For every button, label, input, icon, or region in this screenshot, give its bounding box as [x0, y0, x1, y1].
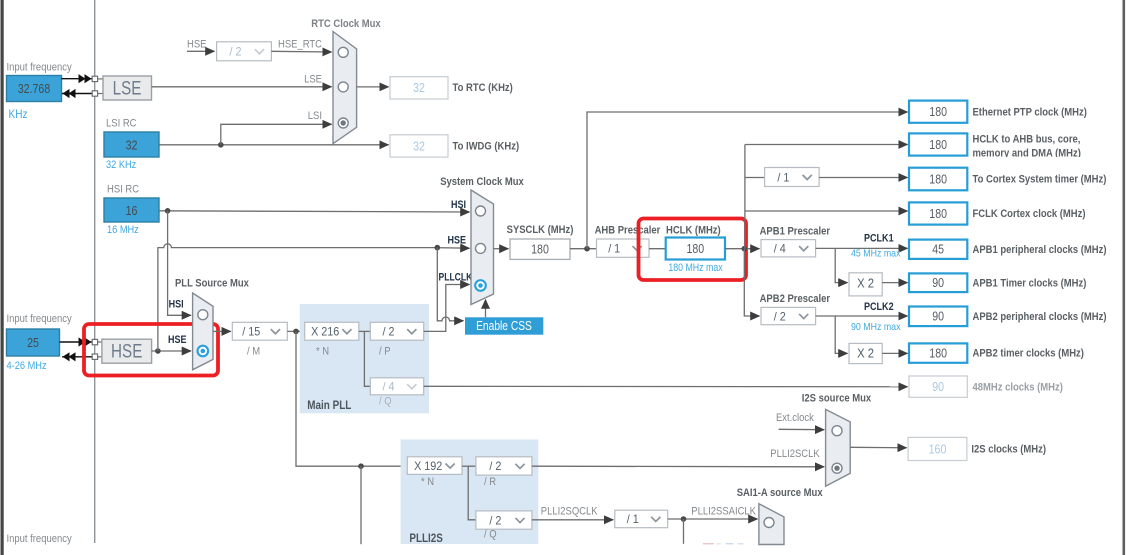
svg-text:APB2 timer clocks (MHz): APB2 timer clocks (MHz) [973, 348, 1085, 360]
divider /P [370, 322, 423, 340]
svg-text:Enable CSS: Enable CSS [476, 319, 532, 333]
clipped row below (tops of characters) [703, 543, 714, 544]
mux RTC Clock Mux [333, 32, 357, 144]
wire APB1 out [816, 247, 908, 249]
svg-text:KHz: KHz [9, 107, 28, 121]
radio sys PLLCLK selected [475, 280, 486, 291]
svg-text:FCLK Cortex clock (MHz): FCLK Cortex clock (MHz) [973, 208, 1086, 220]
wire HCLK to APB1 [725, 248, 760, 250]
value box HCLK 180 [666, 238, 725, 260]
divider /R [476, 457, 532, 475]
svg-text:HSE_RTC: HSE_RTC [278, 39, 322, 51]
svg-text:HSI: HSI [169, 299, 184, 311]
oscillator HSE [102, 339, 152, 363]
wire HSI to system mux [159, 211, 470, 212]
oscillator box LSI 32 [104, 132, 159, 157]
svg-text:LSI RC: LSI RC [106, 118, 137, 130]
label HCLK to AHB line2 (clipped) [973, 148, 1082, 160]
svg-text:To RTC (KHz): To RTC (KHz) [453, 82, 514, 94]
svg-text:/ 1: / 1 [608, 242, 620, 256]
wire X2 apb1 out [882, 282, 907, 284]
svg-text:* N: * N [421, 476, 434, 488]
multiplier X192 [407, 457, 462, 475]
wire hclk riser up [744, 145, 746, 249]
svg-text:32: 32 [413, 81, 425, 95]
svg-text:PLLCLK: PLLCLK [439, 272, 473, 284]
wire /M to X216 [287, 330, 304, 332]
radio PLL HSI [198, 310, 208, 320]
divider APB2 /2 [761, 307, 816, 324]
wire to cortex divider [745, 177, 765, 179]
svg-text:* N: * N [316, 346, 329, 358]
svg-text:/ 4: / 4 [774, 242, 786, 256]
svg-text:Main PLL: Main PLL [307, 400, 351, 412]
svg-text:Input frequency: Input frequency [7, 533, 73, 545]
svg-text:/ 4: / 4 [383, 380, 395, 394]
wire X216 to /P [359, 330, 371, 332]
svg-text:180: 180 [929, 207, 947, 221]
svg-text:32 KHz: 32 KHz [106, 159, 136, 171]
wire mux to RTC box [357, 86, 389, 88]
svg-text:/ 2: / 2 [383, 325, 395, 339]
svg-text:APB1 Timer clocks (MHz): APB1 Timer clocks (MHz) [973, 277, 1087, 289]
wire PLLI2SQCLK [532, 519, 613, 521]
svg-text:HSE: HSE [187, 39, 207, 51]
svg-text:PCLK1: PCLK1 [864, 233, 894, 245]
svg-text:180: 180 [687, 242, 705, 256]
svg-text:memory and DMA (MHz): memory and DMA (MHz) [973, 148, 1082, 160]
radio LSE [338, 82, 348, 92]
junction ethernet riser [584, 246, 590, 252]
svg-text:PLL Source Mux: PLL Source Mux [175, 278, 250, 290]
wire X2 apb2 out [882, 352, 907, 354]
value box Cortex timer 180 [909, 168, 967, 191]
value box To RTC 32 [390, 77, 448, 99]
svg-text:90 MHz max: 90 MHz max [851, 321, 901, 333]
divider /Q [370, 378, 423, 395]
wire branch to /Q [364, 331, 370, 386]
wire HSE_RTC to mux [271, 50, 331, 53]
value box APB1 periph 45 [909, 240, 967, 259]
svg-text:RTC Clock Mux: RTC Clock Mux [311, 18, 381, 30]
svg-text:HSE: HSE [448, 235, 467, 247]
red highlight HSE [84, 324, 218, 376]
pin square HSE bottom [92, 354, 97, 359]
svg-text:32: 32 [413, 139, 425, 153]
block PLLI2S [401, 439, 539, 544]
svg-text:HSI: HSI [451, 199, 466, 211]
red highlight HCLK [639, 219, 747, 281]
wire LSE to mux [152, 86, 332, 88]
svg-text:Input frequency: Input frequency [7, 313, 73, 325]
wire X192 to /R [462, 465, 476, 467]
junction SAI [681, 516, 687, 522]
radio SAI [764, 518, 774, 528]
svg-text:45 MHz max: 45 MHz max [851, 248, 901, 260]
svg-text:/ 2: / 2 [774, 309, 786, 323]
wire down to PLLSAI [360, 466, 362, 544]
svg-text:To IWDG (KHz): To IWDG (KHz) [453, 141, 520, 153]
divider cortex /1 [765, 168, 820, 187]
svg-text:Ext.clock: Ext.clock [776, 412, 814, 424]
svg-text:180: 180 [929, 172, 947, 186]
radio sys HSI [476, 206, 486, 216]
svg-text:PLLI2SSAICLK: PLLI2SSAICLK [691, 506, 756, 518]
wire APB2 out [816, 315, 908, 317]
svg-text:/ 2: / 2 [230, 45, 242, 59]
junction LSI [218, 142, 224, 148]
junction HSI [165, 208, 171, 214]
wire ethernet ptp [587, 112, 908, 249]
svg-text:HSE: HSE [111, 342, 142, 363]
wire HSE riser to system mux (with hop) [158, 244, 433, 351]
svg-text:32.768: 32.768 [18, 82, 51, 96]
wire cortex to box [819, 177, 908, 179]
mux System Clock Mux [471, 190, 494, 305]
svg-text:25: 25 [27, 336, 39, 350]
wire sys mux out [494, 248, 509, 250]
svg-text:/ P: / P [379, 346, 391, 358]
wire LSE return [62, 93, 92, 95]
multiplier *N X216 [305, 322, 359, 340]
radio PLLI2SCLK selected [832, 463, 842, 473]
svg-text:System Clock Mux: System Clock Mux [440, 176, 524, 188]
multiplier X2 apb2 [849, 343, 882, 363]
svg-text:APB1 Prescaler: APB1 Prescaler [760, 226, 831, 238]
value box I2S 160 [908, 437, 967, 460]
pin square bottom [92, 91, 97, 96]
svg-text:/ R: / R [484, 476, 496, 488]
divider /M [232, 322, 287, 340]
junction pll input [293, 329, 299, 335]
wire I2S mux out [850, 446, 906, 449]
svg-text:/ Q: / Q [484, 529, 497, 541]
junction hclk [742, 246, 748, 252]
wire Ext.clock stub [779, 428, 825, 430]
svg-text:4-26 MHz: 4-26 MHz [7, 360, 47, 372]
svg-text:/ M: / M [247, 346, 260, 358]
svg-text:APB1 peripheral clocks (MHz): APB1 peripheral clocks (MHz) [973, 244, 1107, 256]
svg-text:To Cortex System timer (MHz): To Cortex System timer (MHz) [973, 174, 1107, 186]
svg-text:HSI RC: HSI RC [107, 184, 139, 196]
wire AHB to HCLK [649, 248, 666, 250]
radio PLL HSE selected [198, 346, 209, 357]
wire HSI branch to PLL mux [168, 211, 191, 315]
wire HSE to Enable CSS (with hop) [437, 248, 452, 321]
mux I2S source Mux [826, 409, 851, 486]
wire 48MHz from /Q [424, 385, 908, 388]
value box 48MHz 90 [909, 376, 967, 397]
wire LSE drive out [62, 78, 93, 80]
left divider line [94, 0, 96, 543]
svg-text:SYSCLK (MHz): SYSCLK (MHz) [507, 224, 574, 236]
value box To IWDG 32 [390, 135, 448, 157]
oscillator LSE [103, 76, 152, 100]
wire SYSCLK to AHB [570, 248, 597, 250]
oscillator box HSI 16 [104, 198, 159, 222]
input frequency box 32.768 [7, 76, 62, 102]
svg-text:Input frequency: Input frequency [7, 62, 73, 74]
wire HSE to /2 divider [187, 50, 215, 52]
svg-text:180 MHz max: 180 MHz max [668, 262, 723, 274]
svg-text:I2S source Mux: I2S source Mux [802, 393, 872, 405]
radio Ext clock [832, 426, 842, 436]
wire HSE return [62, 356, 92, 358]
input frequency box 25 [7, 329, 60, 356]
wire APB1 branch to X2 [835, 248, 847, 282]
radio sys HSE [476, 243, 486, 253]
wire HSE to PLL mux [152, 350, 191, 352]
svg-text:APB2 Prescaler: APB2 Prescaler [760, 293, 831, 305]
divider AHB /1 [597, 239, 650, 257]
mux SAI1-A (partial) [759, 504, 784, 545]
svg-text:PLLI2SQCLK: PLLI2SQCLK [541, 506, 598, 518]
svg-text:X 2: X 2 [857, 346, 874, 360]
pin square HSE top [92, 339, 97, 344]
wire PLLCLK from /P to system mux [424, 285, 470, 332]
svg-text:90: 90 [932, 276, 944, 290]
svg-text:90: 90 [932, 380, 944, 394]
button Enable CSS [465, 317, 543, 334]
value box HCLK to AHB 180 [909, 133, 967, 155]
value box APB2 timer 180 [909, 343, 967, 362]
wire branch to /Q plli2s [468, 466, 476, 520]
radio LSI selected [338, 118, 348, 128]
svg-text:160: 160 [929, 442, 947, 456]
svg-text:X 216: X 216 [311, 325, 339, 339]
svg-text:90: 90 [932, 310, 944, 324]
svg-text:HCLK (MHz): HCLK (MHz) [666, 225, 721, 237]
svg-text:X 2: X 2 [857, 276, 874, 290]
pin square top [92, 76, 97, 81]
svg-text:180: 180 [929, 105, 947, 119]
svg-text:16: 16 [126, 204, 138, 218]
wire hclk down to APB2 [744, 249, 759, 316]
svg-text:HSE: HSE [168, 334, 187, 346]
wire APB2 branch to X2 [835, 316, 847, 353]
radio HSE_RTC [338, 47, 348, 57]
svg-text:/ 1: / 1 [627, 512, 639, 526]
svg-text:Ethernet PTP clock (MHz): Ethernet PTP clock (MHz) [973, 106, 1088, 118]
wire PLL mux to /M [213, 330, 231, 332]
mux PLL Source Mux [193, 293, 213, 370]
svg-text:LSI: LSI [308, 110, 322, 122]
wire LSI to IWDG [159, 144, 389, 146]
junction HSE out [155, 348, 161, 354]
svg-text:180: 180 [929, 138, 947, 152]
svg-text:32: 32 [126, 139, 138, 153]
divider SAI /1 [615, 510, 668, 528]
value box APB1 timer 90 [909, 273, 967, 292]
connector squares to LSE box [98, 78, 103, 80]
svg-text:PCLK2: PCLK2 [864, 301, 894, 313]
svg-text:LSE: LSE [304, 74, 322, 86]
block Main PLL [300, 304, 429, 413]
value box SYSCLK 180 [510, 239, 570, 259]
svg-text:/ 2: / 2 [489, 459, 501, 473]
left panel border [1, 0, 4, 555]
svg-text:I2S clocks (MHz): I2S clocks (MHz) [971, 444, 1046, 456]
svg-text:48MHz clocks (MHz): 48MHz clocks (MHz) [973, 381, 1064, 393]
value box Ethernet PTP 180 [909, 101, 967, 123]
divider /Q plli2s [476, 511, 532, 529]
svg-text:LSE: LSE [113, 79, 142, 100]
svg-text:PLLI2S: PLLI2S [409, 533, 443, 545]
junction HSE css branch [435, 245, 441, 251]
svg-text:PLLI2SCLK: PLLI2SCLK [770, 448, 820, 460]
wire HSE drive out [60, 341, 93, 343]
svg-text:16 MHz: 16 MHz [107, 224, 139, 236]
value box APB2 periph 90 [909, 307, 967, 327]
wire Enable CSS arrow up [485, 300, 487, 318]
svg-text:180: 180 [531, 243, 549, 257]
divider HSE_RTC /2 [217, 42, 272, 61]
wire SAI down [683, 519, 685, 544]
value box FCLK 180 [909, 202, 967, 224]
wire PLLI2SCLK to I2S mux [532, 465, 824, 468]
wire SAI out [668, 518, 758, 520]
divider APB1 /4 [761, 240, 816, 257]
svg-text:45: 45 [932, 243, 944, 257]
wire to HCLK AHB bus box [745, 144, 908, 146]
svg-text:/ 2: / 2 [489, 513, 501, 527]
wire to FCLK box [745, 210, 908, 212]
svg-text:/ Q: / Q [379, 396, 392, 408]
svg-text:SAI1-A source Mux: SAI1-A source Mux [737, 487, 824, 499]
connector squares to HSE box [98, 341, 102, 343]
svg-text:X 192: X 192 [414, 459, 442, 473]
svg-text:HCLK to AHB bus, core,: HCLK to AHB bus, core, [973, 134, 1081, 146]
wire LSI branch to mux [221, 124, 332, 145]
svg-text:/ 15: / 15 [242, 325, 260, 339]
svg-text:APB2 peripheral clocks (MHz): APB2 peripheral clocks (MHz) [973, 311, 1107, 323]
right panel border [1123, 0, 1126, 555]
svg-text:/ 1: / 1 [777, 170, 789, 184]
svg-text:AHB Prescaler: AHB Prescaler [595, 225, 661, 237]
junction plli2s feed [358, 463, 364, 469]
svg-text:180: 180 [929, 346, 947, 360]
multiplier X2 apb1 [849, 273, 882, 296]
wire pll input down to PLLI2S [296, 331, 407, 466]
